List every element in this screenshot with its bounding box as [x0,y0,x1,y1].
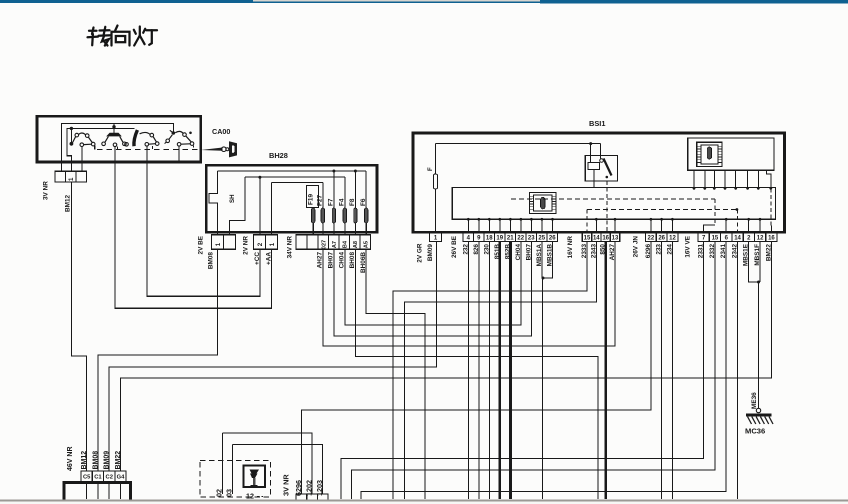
svg-text:SH: SH [229,194,236,203]
connector cells C5 C1 C2 G4 [81,471,92,482]
switch contact S1 [70,127,73,130]
fuse F6 [365,208,368,223]
svg-text:F7: F7 [328,198,335,206]
IC chip symbol U2 [697,142,722,166]
svg-text:F8: F8 [349,198,356,206]
wire S2 down [114,147,116,162]
svg-text:BSI1: BSI1 [589,119,605,128]
ground symbol MC36 [756,408,760,412]
svg-text:B4: B4 [343,240,349,248]
svg-text:22: 22 [648,236,655,242]
BSI JN connector cells [646,233,657,242]
svg-text:F19: F19 [307,194,314,205]
wire pin1 through fuse [435,144,437,174]
mechanical link dashed line to key [97,148,200,150]
fuse F4 [343,208,346,223]
svg-text:18: 18 [486,236,493,242]
svg-text:2V NR: 2V NR [243,236,250,255]
lamp pin wire 02 [221,433,223,494]
BSI VE connector cells [698,233,709,242]
svg-text:ME36: ME36 [751,392,758,409]
svg-text:19: 19 [496,236,503,242]
bottom grey separator line [0,500,848,502]
fuse F19 [312,208,315,223]
wire U2 rightmost with jog [767,170,771,187]
wire BM09 from BSI pin1 to C2 [109,242,436,472]
wire 850 thick [604,242,607,500]
lamp pin wire 03 [232,445,234,494]
svg-text:46V NR: 46V NR [67,446,74,471]
top gray bar middle segment [253,0,540,2]
ignition key CA00 symbol [201,148,223,151]
svg-text:14: 14 [593,236,600,242]
wire +AA drop inside BH28 [270,182,272,234]
top blue bar right segment [540,0,848,3]
bottom connector cells 6296 1202 1203 [296,494,307,503]
BH28 connector cells row [212,235,224,250]
svg-text:BM09: BM09 [104,451,111,470]
svg-text:G4: G4 [117,475,126,481]
BSI pin1 connector cell [430,233,442,242]
svg-text:26: 26 [549,236,556,242]
svg-text:03: 03 [225,489,234,497]
switch contact S4 [172,131,176,135]
BH28 internal bus 2 [245,176,345,178]
relay lever [604,159,612,176]
SH internal wire with notch [209,171,218,235]
wire S3 down [146,146,148,162]
svg-text:12: 12 [246,492,254,501]
fuse box BH28 [206,165,377,232]
relay coil [588,163,600,170]
svg-text:25: 25 [538,236,545,242]
wire AH27 BH28 to BSI NR pin13 [323,242,615,347]
wire 234 [671,242,673,500]
svg-text:16V VE: 16V VE [685,235,692,257]
fuse F7 [332,208,335,223]
wire S4 down [178,146,180,161]
wire 2342 BSI VE pin14 off page [736,242,738,500]
wire BH06B going off page [366,249,425,499]
fuse F19 holder outline [307,186,319,208]
svg-text:3V NR: 3V NR [43,181,50,200]
svg-text:BM12: BM12 [81,451,88,470]
svg-text:13: 13 [612,236,619,242]
svg-text:23: 23 [528,236,535,242]
svg-text:2: 2 [257,242,264,246]
svg-text:21: 21 [507,236,514,242]
wire CH04 BH28 to BSI BE pin22 [345,242,521,326]
svg-text:22: 22 [517,236,524,242]
BH28 internal bus 3 [271,181,322,183]
svg-text:15: 15 [584,236,591,242]
svg-text:BM08: BM08 [92,451,99,470]
wire drops to fuses [322,182,324,208]
dashed drop to pin 7 VE [714,199,716,225]
svg-text:16V NR: 16V NR [567,236,574,259]
dashed logic line D2 [587,209,737,211]
svg-text:C1: C1 [94,475,102,481]
wire 2341 BSI VE pin6 [361,242,726,500]
wire 1203 to lamp pin 03 [233,445,323,494]
BSI NR connector cells [582,233,591,242]
svg-text:CA00: CA00 [212,127,230,136]
relay box inside BSI [585,156,617,182]
svg-text:1: 1 [68,177,75,181]
BSI NR pin 13 stub [614,219,616,233]
wire BM22 from BSI VE pin16 to G4 [120,242,771,472]
lamp unit dashed enclosure [200,461,270,497]
dashed wire to pin 16 VE [770,188,772,226]
wires inside interconnection box [86,482,88,500]
wire 851B thick [498,242,501,500]
svg-text:12: 12 [757,236,764,242]
BSI BE connector cells [463,233,474,242]
svg-text:14: 14 [734,236,741,242]
svg-text:1: 1 [269,242,276,246]
svg-text:C2: C2 [106,475,113,481]
dashed drop to pin 15 NR [586,210,588,234]
BSI NR pin 14 stub [595,219,597,233]
wire 852B thick [509,242,512,500]
wire 6296 BSI JN pin22 to bottom connector [302,242,651,495]
switch internal frame wire B [67,128,135,171]
wire relay coil to logic box [593,170,595,188]
svg-text:A5: A5 [364,241,370,248]
switch contact S3 (stalk thick lever) [134,130,138,146]
body controller BSI1 [413,133,785,232]
svg-text:BM22: BM22 [115,451,122,470]
svg-text:2V GR: 2V GR [417,243,424,263]
svg-text:F: F [428,167,434,171]
wire switch S3 to +CC [147,162,260,296]
svg-text:BH28: BH28 [269,151,288,160]
BSI long logic box [452,188,775,220]
BSI VE pin stubs [725,219,727,233]
steering column switch box [37,116,201,162]
wire 230 [488,242,490,500]
wire 1202 to lamp pin 02 [222,433,312,494]
wire 2332 BSI VE pin15 [352,242,715,500]
svg-text:A7: A7 [332,241,338,248]
svg-text:3V NR: 3V NR [282,474,291,496]
indicator lamp symbol [250,470,260,479]
BSI JN pin stubs [650,219,652,233]
svg-text:15: 15 [712,236,719,242]
svg-text:A8: A8 [353,241,359,248]
wire BH07 BH28 to BSI BE pin23 [334,242,532,337]
IC chip symbol U1 inside logic box [530,193,557,214]
svg-text:26: 26 [658,236,665,242]
wire 233 [661,242,663,500]
wire 2331 BSI VE pin7 [341,242,704,500]
svg-text:BM09: BM09 [427,244,434,261]
svg-text:16: 16 [602,236,609,242]
svg-text:C5: C5 [83,475,91,481]
svg-text:2V BE: 2V BE [198,235,205,254]
wire 826 [478,242,480,500]
svg-text:BM12: BM12 [65,195,72,212]
svg-text:BM08: BM08 [208,252,215,269]
title text: turn signal lamps (hanzi strokes) [88,26,158,46]
svg-text:MC36: MC36 [745,427,765,436]
dashed drop to pin 14 VE [736,210,738,234]
svg-text:F6: F6 [360,198,367,206]
svg-text:027: 027 [322,240,328,249]
wire switch S2 to +AA [115,162,271,308]
wire BM08 from BH28 pin1 to C1 [98,249,218,471]
svg-text:16: 16 [768,236,775,242]
IC box top right of BSI [688,138,774,170]
svg-text:F27: F27 [317,195,324,206]
BSI BE pin stubs with junction dots [467,219,469,233]
interconnection box bottom left [64,483,131,504]
wire BM12 from switch connector to C5 [72,182,87,471]
dashed logic line D1 [511,198,715,200]
connector under switch box (cell 1) [55,171,66,182]
svg-text:26V JN: 26V JN [633,236,640,258]
svg-text:12: 12 [669,236,676,242]
wire BH08 going off page [355,249,598,499]
wire S1 contact down to connector [81,147,83,172]
wire 2333 BSI NR pin15 to lower left [393,242,587,500]
indicator lamp box [244,465,266,487]
wire MBS1B junction bracket [543,242,553,279]
svg-text:34V NR: 34V NR [287,236,294,259]
wire 232 [467,242,469,500]
SH internal branch wire [230,177,246,235]
BH28 internal bus 1 [218,170,367,172]
wire MBS1A off page [541,242,543,279]
switch internal frame wire A [61,123,173,171]
wire MBS1F to ground MC36 [759,242,761,283]
wires IC box U2 to logic box [693,170,695,187]
fuse F27 [321,208,324,223]
dashed wire relay to pin 16 NR [606,181,608,233]
fuse F8 [354,208,357,223]
switch contact S2 (rocker) [113,123,115,127]
svg-text:1: 1 [215,242,222,246]
wire +CC drop inside BH28 [259,177,261,235]
svg-text:F4: F4 [339,198,346,206]
svg-text:02: 02 [215,489,224,497]
top blue bar left segment [0,0,253,3]
svg-text:26V BE: 26V BE [451,235,458,258]
wire MBS1E junction bracket to ground [749,242,759,283]
wire 2343 BSI NR pin14 to lower left [405,242,597,500]
fuse F inside BSI [433,174,437,189]
BSI internal supply bus [436,143,601,145]
relay contact [600,159,604,163]
